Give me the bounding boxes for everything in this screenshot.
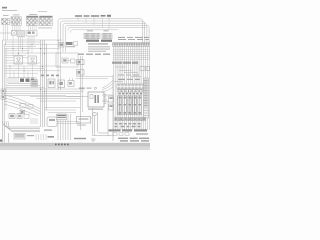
harness from unit to field [102, 80, 113, 92]
wires center horizontals [5, 86, 84, 102]
note strip bottom-right second row [120, 140, 149, 141]
small text right mid [118, 75, 139, 76]
component box C1 [56, 53, 78, 67]
wire left top [0, 32, 12, 34]
connector table CN2 [11, 17, 21, 25]
connector table CN2 label [13, 14, 20, 15]
wire field right verticals [113, 46, 149, 130]
note text lower right [136, 133, 148, 134]
component box D2 [58, 80, 65, 88]
component box A1 [26, 31, 37, 37]
bottom area small structures [14, 134, 54, 141]
scanner bed band [0, 143, 150, 147]
connector cell row R1 [118, 90, 143, 92]
wire bus top horizontal [58, 19, 149, 43]
ground symbol [91, 139, 95, 141]
relay K2 [14, 56, 23, 64]
wire drops from tables [4, 25, 37, 78]
bottom-left bus [3, 121, 41, 132]
label band mid-right [112, 62, 138, 64]
wires upper cross [76, 77, 113, 79]
component cluster top-center [59, 42, 78, 48]
wires bottom-center horizontals [57, 122, 80, 124]
option label drops [78, 17, 109, 30]
connector table CN4 [40, 16, 53, 26]
small boxes left-lower [20, 104, 33, 109]
junction box small [20, 110, 25, 113]
junction dots left [5, 40, 58, 92]
component boxes mid-center [48, 79, 55, 88]
wires mid-left [5, 58, 60, 73]
left border bus [3, 40, 7, 127]
label row center [78, 54, 110, 55]
ladder connector strip J11 [117, 84, 146, 89]
connector table CN3 [27, 16, 39, 26]
title No.1 [2, 7, 17, 11]
pin table mid-center [31, 80, 38, 86]
wire pair center vertical [81, 56, 83, 130]
small connector row above [41, 75, 59, 77]
wire from unit right [102, 94, 113, 96]
wire cluster left horizontals [3, 40, 63, 55]
lower-right marks row [115, 118, 145, 120]
wire from unit lower [102, 101, 108, 136]
comb connector mid-left [8, 78, 36, 83]
connector table CN1 label [3, 15, 9, 16]
wire into unit [66, 96, 88, 98]
vertical bus center-left [41, 40, 47, 127]
connector table CN3 label [29, 14, 37, 15]
small table CN7 [102, 33, 112, 38]
note under CN4 [38, 27, 52, 28]
label band lower right [109, 129, 148, 131]
option label band top-center [75, 15, 111, 17]
enclosure border right [112, 75, 114, 141]
right small boxes row [140, 67, 150, 71]
bus labels top-right [118, 37, 149, 40]
connector strip J10 [113, 43, 151, 46]
terminal cells left of bank [109, 96, 114, 110]
rounded component bottom-center-left [47, 117, 57, 127]
lower-right connector row [115, 118, 146, 121]
small table CN7 label [104, 29, 109, 32]
motor M1 [91, 112, 97, 118]
unit label [88, 109, 103, 110]
wires lower-center horizontals [44, 108, 80, 113]
bottom center label [74, 138, 86, 139]
title block center heading [86, 40, 112, 52]
key switch text row [79, 87, 97, 89]
scanner band footer [0, 147, 150, 150]
junction boxes far-left [1, 89, 6, 99]
corner mark [0, 140, 2, 142]
footer page text [55, 144, 69, 146]
battery label [77, 124, 86, 127]
subtitle note [38, 10, 47, 13]
terminal column right edge [144, 78, 149, 118]
comb connector CN5 [18, 31, 25, 37]
relay K3 [28, 56, 37, 64]
battery box [77, 117, 91, 124]
small text right upper [118, 79, 140, 80]
component box B2 [77, 70, 85, 75]
scattered ties right field [114, 67, 141, 82]
small table CN6 label [87, 29, 93, 32]
relay K1 [12, 31, 17, 36]
component box D3 [68, 78, 74, 87]
wire field right horizontals [113, 50, 150, 60]
main unit box center [88, 92, 106, 107]
curved harness bottom-left [4, 95, 40, 116]
wire pair bottom-center vertical [93, 108, 114, 136]
bottom-left boxes [9, 114, 52, 131]
component box B1 [77, 60, 85, 65]
small table CN6 [84, 33, 100, 38]
connector table CN1 [2, 18, 10, 24]
connector cell row R2 [118, 93, 142, 95]
small table bottom-center [57, 114, 67, 120]
lower-right dash row [115, 123, 141, 127]
relay module marks [119, 97, 141, 114]
wire stubs to band [3, 127, 9, 143]
note strip bottom-right [118, 138, 149, 139]
wire bus vertical drop [58, 22, 66, 91]
small boxes under band [113, 133, 129, 136]
vertical lines bottom-center [58, 114, 71, 140]
relay module bank [118, 96, 142, 115]
page background [0, 0, 150, 150]
